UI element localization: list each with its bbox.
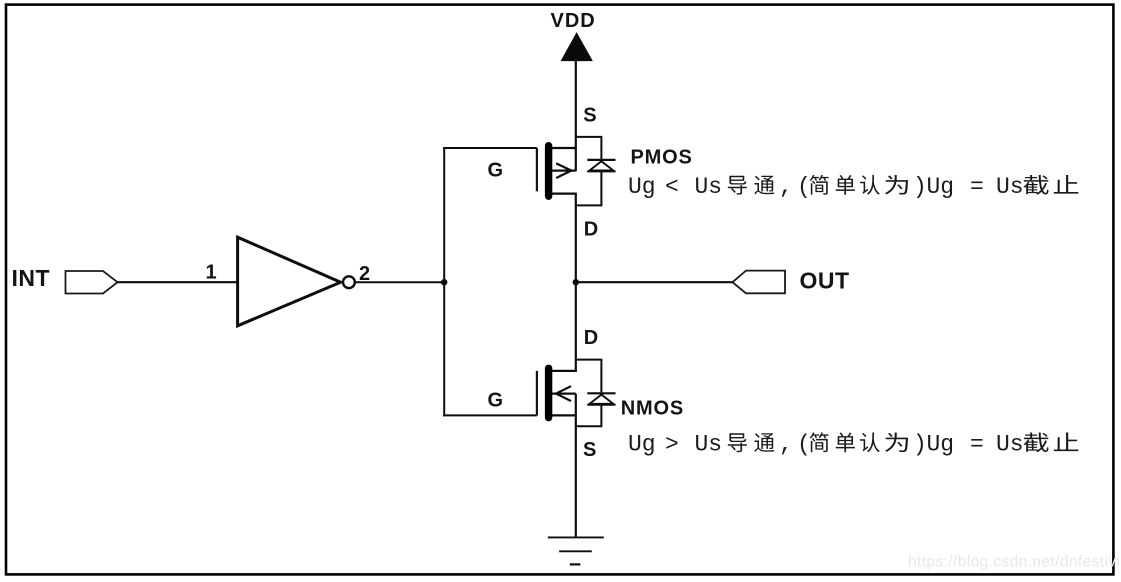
svg-text:D: D [584,219,598,241]
svg-text:Us: Us [996,432,1024,458]
wire gate bus to PMOS gate [443,147,537,149]
svg-text:>: > [665,432,679,458]
NMOS body diode D2 [587,392,615,394]
svg-text:PMOS: PMOS [631,146,693,168]
svg-text:Us: Us [996,174,1024,200]
svg-text:<: < [665,174,679,200]
svg-text:(: ( [797,174,811,200]
PMOS Q1 gate plate [536,148,538,191]
svg-text:Ug: Ug [927,432,955,458]
svg-text:=: = [970,432,984,458]
inverter output bubble [343,276,355,288]
ground [548,536,604,538]
PMOS source line [552,147,577,149]
NMOS condition note [628,432,1078,458]
svg-text:=: = [970,174,984,200]
wire node to OUT port [576,281,733,283]
svg-text:Ug: Ug [927,174,955,200]
gate bus vertical wire [443,147,445,416]
NMOS Q2 gate plate [536,371,538,416]
wire INT to inverter input [118,281,238,283]
svg-text:INT: INT [12,265,51,291]
svg-text:G: G [488,390,504,412]
svg-text:G: G [488,159,504,181]
wire NMOS source to ground [575,394,577,538]
NMOS body diode branch top [576,360,602,393]
svg-text:,: , [779,432,793,458]
PMOS channel bar [545,146,552,197]
NMOS body diode branch bottom [576,405,602,426]
svg-text:VDD: VDD [551,10,596,32]
svg-text:Ug: Ug [628,174,656,200]
port INT [66,271,118,294]
NMOS bulk line with arrow [552,393,576,395]
NMOS drain line [552,370,577,372]
PMOS body diode branch top [576,137,602,159]
svg-text:Ug: Ug [628,432,656,458]
svg-text:https://blog.csdn.net/dnfestiv: https://blog.csdn.net/dnfestivi [908,554,1120,571]
inverter U1 [238,237,341,326]
svg-text:(: ( [797,432,811,458]
svg-text:S: S [583,439,596,461]
svg-text:): ) [913,174,927,200]
NMOS channel bar [545,368,552,417]
svg-text:S: S [583,105,596,127]
svg-text:1: 1 [206,261,217,283]
PMOS body diode branch bottom [576,172,602,205]
PMOS body diode D1 [587,159,615,161]
VDD arrow [561,33,592,60]
svg-text:): ) [913,432,927,458]
svg-text:Us: Us [695,174,723,200]
wire inverter output to gate bus [355,281,444,283]
output node junction dot [573,279,579,285]
svg-text:Us: Us [695,432,723,458]
PMOS condition note [628,174,1078,200]
junction dot on gate bus [441,279,447,285]
wire PMOS drain to output node [575,194,577,372]
port OUT [733,271,786,294]
wire VDD to PMOS source [575,59,577,171]
wire gate bus to NMOS gate [443,414,537,416]
PMOS bulk line with arrow [552,170,576,172]
NMOS source line [552,414,577,416]
svg-text:,: , [779,174,793,200]
svg-text:OUT: OUT [800,268,850,294]
svg-text:D: D [584,327,598,349]
PMOS drain line [552,193,577,195]
svg-text:NMOS: NMOS [621,398,684,420]
